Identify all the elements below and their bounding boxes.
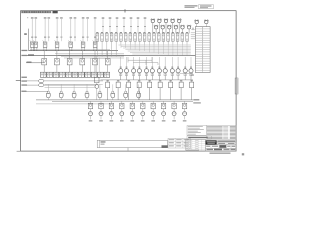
wire cell B18 bottom [177, 41, 179, 44]
wire from buffer E1 [44, 80, 103, 82]
coil CR10 [176, 69, 180, 73]
routing wire mesh v12 [172, 45, 174, 56]
driver D8 [161, 103, 165, 109]
wire gate G2 down [60, 98, 62, 100]
wire lamp DS2 stem [158, 23, 160, 34]
transistor Q8 [163, 109, 165, 111]
net label right y74 [191, 75, 195, 76]
contact pair P6 [72, 72, 78, 77]
routing wire mesh h8 [135, 55, 191, 57]
wire lamp DS10 stem [182, 29, 184, 33]
relay cell B2 [101, 31, 103, 34]
lamp box L6 [81, 42, 85, 47]
wire gate G3 up [73, 84, 75, 91]
relay R2-3 [67, 59, 72, 65]
wire cell B19 bottom [181, 41, 183, 44]
wire register M2 bottom [117, 88, 119, 100]
routing wire mesh v7 [148, 45, 150, 53]
wire driver D8 top [163, 101, 165, 103]
net label y77 [21, 77, 27, 78]
border tick left center [16, 80, 21, 82]
sheet number box top-right [199, 5, 214, 9]
lamp DS3 [164, 19, 167, 22]
register cell M1 [106, 82, 110, 88]
contact pair P7 [79, 72, 85, 77]
wire coil CR11 top [184, 57, 186, 69]
gate G3 [73, 91, 75, 93]
net label y100 right [193, 99, 199, 100]
routing step wire 4 [145, 60, 147, 65]
title strip text top-left [21, 11, 51, 13]
relay R2-1 [42, 59, 47, 65]
wire cell B2 bottom [101, 41, 103, 56]
wire relay R2-4 bottom [81, 65, 83, 72]
drawing number row [206, 145, 237, 148]
wire driver D4 top [121, 101, 123, 103]
wire coil CR6 bottom [151, 73, 153, 80]
wire register M4 bottom [138, 88, 140, 100]
wire register M1 bottom [107, 88, 109, 100]
relay R2-4 [80, 59, 85, 65]
coil CR5 [144, 69, 148, 73]
routing wire mesh h5 [128, 50, 191, 52]
coil CR4 [137, 69, 141, 73]
wire lamp L3 legs [43, 47, 45, 50]
wire gate G8 down [138, 98, 140, 100]
routing wire mesh v11 [167, 45, 169, 56]
lamp box L1 [30, 42, 34, 47]
mark below border right [242, 153, 244, 155]
wire coil CR4 top [138, 57, 140, 69]
wire register M1 top [107, 80, 109, 82]
wire vertical x99 [98, 58, 100, 73]
wire cell B11 bottom [144, 41, 146, 44]
wire register M9 top [191, 80, 193, 82]
wire cell B7 bottom [125, 41, 127, 44]
terminal strip table TB1 [195, 27, 210, 73]
sheet label text top-right [185, 5, 198, 6]
transistor Q3 label [110, 120, 114, 121]
net label left 1 [24, 33, 27, 35]
wire relay R2-3 top [69, 51, 71, 59]
wire below cable box [127, 148, 129, 151]
wire y79.9 long [101, 79, 194, 81]
relay cell B4 [110, 31, 112, 34]
wire coil CR9 top [171, 57, 173, 69]
register cell M5 [148, 82, 152, 88]
wire driver D10 top [184, 101, 186, 103]
transistor Q1 label [89, 120, 93, 121]
wire lamp DS8 stem [168, 29, 170, 33]
lamp DS11 [187, 26, 190, 29]
wire lamp DS1 stem [152, 23, 154, 34]
border tick top center [124, 9, 126, 12]
relay cell B17 [172, 31, 174, 34]
wire lamp DS9 stem [175, 29, 177, 33]
coil CR3 [132, 69, 136, 73]
wire gate G1 up [47, 84, 49, 91]
input stub [87, 19, 89, 41]
wire coil CR10 bottom [177, 73, 179, 80]
title text [217, 141, 235, 142]
transistor Q8 label [162, 120, 166, 121]
lamp box L7 [93, 42, 97, 47]
input stub mid 7 [144, 19, 146, 33]
lamp DS9 [174, 26, 177, 29]
relay cell B15 [162, 31, 164, 34]
relay cell B10 [139, 31, 141, 34]
wire coil CR1 top [120, 57, 122, 69]
register cell M8 [179, 82, 183, 88]
cable schedule box [97, 140, 167, 147]
routing wire mesh h2 [121, 46, 191, 48]
wire coil CR2 top [126, 57, 128, 69]
wire gate G1 down [47, 98, 49, 100]
routing wire mesh h4 [125, 49, 190, 51]
wire lamp L1 legs [30, 47, 32, 50]
wire lamp DS3 stem [165, 23, 167, 34]
routing wire mesh h6 [130, 52, 191, 54]
bottom row fields [206, 148, 237, 151]
wire vertical x96 [96, 56, 98, 77]
relay R2-5 [93, 59, 98, 65]
transistor Q7 label [151, 120, 155, 121]
wire coil CR8 top [164, 57, 166, 69]
field cell dark right of cable box [162, 145, 168, 148]
wire driver D1 top [90, 101, 92, 103]
routing step wire 2 [133, 62, 158, 64]
transistor Q7 [152, 109, 154, 111]
lamp DS10 [181, 26, 184, 29]
bus bundle wire 2 [58, 54, 124, 56]
wire register M8 bottom [180, 88, 182, 100]
lamp box L4 [55, 42, 59, 47]
coil CR12 [189, 69, 193, 73]
gate G1 [47, 91, 49, 93]
routing wire mesh h7 [132, 53, 191, 55]
coil CR8 [163, 69, 167, 73]
wire coil CR1 bottom [120, 73, 122, 80]
wire lamp L2 top [35, 19, 37, 42]
wire cell B5 bottom [115, 41, 117, 56]
drawing border frame [21, 11, 237, 151]
routing wire mesh v15 [186, 45, 188, 56]
transistor Q6 [142, 109, 144, 111]
coil CR6 [150, 69, 154, 73]
bus wire y104 [36, 103, 110, 105]
relay cell B20 [186, 31, 188, 34]
bus wire y50 [29, 50, 118, 52]
wire lamp L6 top [82, 19, 84, 42]
wire step y58 [91, 57, 111, 59]
contact pair P11 [104, 72, 110, 77]
net label y84 [21, 84, 27, 85]
register cell M6 [158, 82, 162, 88]
wire register M7 top [170, 80, 172, 82]
transistor Q9 [173, 109, 175, 111]
wire coil CR7 bottom [158, 73, 160, 80]
input stub mid 6 [137, 19, 139, 33]
transistor Q2 label [99, 120, 103, 121]
wire lamp DS11 stem [188, 29, 190, 33]
wire gate G3 down [73, 98, 75, 100]
transistor Q9 label [172, 120, 176, 121]
relay cell B7 [125, 31, 127, 34]
company logo block [206, 140, 217, 144]
wire cell B6 bottom [120, 41, 122, 44]
coil CR10 base [177, 74, 179, 76]
wire relay R2-2 top [56, 51, 58, 59]
coil CR2 [124, 69, 128, 73]
wire register M3 bottom [128, 88, 130, 100]
transistor Q5 label [131, 120, 135, 121]
transistor Q5 [131, 109, 133, 111]
wire register M6 top [159, 80, 161, 82]
relay cell B11 [143, 31, 145, 34]
wire coil CR12 top [190, 57, 192, 69]
driver D1 [88, 103, 92, 109]
relay cell B3 [106, 31, 108, 34]
input stub mid 2 [109, 19, 111, 33]
input stub [74, 19, 76, 41]
transistor Q10 [184, 109, 186, 111]
wire register M6 bottom [159, 88, 161, 100]
lamp DS4 [171, 19, 174, 22]
wire gate G8 up [138, 84, 140, 91]
buffer E1 [39, 79, 44, 82]
routing step wire 1 [128, 59, 152, 61]
wire relay R2-5 top [94, 51, 96, 59]
wire relay R2-6 top [107, 51, 109, 59]
transistor Q1 [90, 109, 92, 111]
lamp DS6 [154, 26, 157, 29]
gate G7 [125, 91, 127, 93]
wire gate G4 up [86, 84, 88, 91]
wire coil CR10 top [177, 57, 179, 69]
bus wire y55 [26, 55, 195, 57]
coil CR2 base [125, 74, 127, 76]
wire lamp DS6 stem [155, 29, 157, 33]
routing step wire 5 [151, 57, 153, 63]
input stub mid 3 [116, 19, 118, 33]
lamp box L5 [69, 42, 73, 47]
terminal ladder TB0 [192, 28, 195, 30]
wire cell B12 bottom [148, 41, 150, 44]
net label y62 [27, 62, 32, 63]
coil CR3 base [132, 74, 134, 76]
driver D7 [151, 103, 155, 109]
wire gate G2 up [60, 84, 62, 91]
contact pair P8 [85, 72, 91, 77]
relay R2-2 [55, 59, 60, 65]
wire lamp L5 legs [69, 47, 71, 50]
wire register M3 top [128, 80, 130, 82]
lamp DS1 [151, 19, 154, 22]
coil CR9 [170, 69, 174, 73]
wire lamp L5 top [70, 19, 72, 42]
wire cell B13 bottom [153, 41, 155, 44]
net label bus y50 [21, 50, 27, 51]
wire y84 mid [45, 83, 103, 85]
driver D3 [109, 103, 113, 109]
coil CR7 base [158, 74, 160, 76]
wire cell B20 bottom [186, 41, 188, 44]
lamp DS5 [178, 19, 181, 22]
relay cell B19 [181, 31, 183, 34]
wire coil CR4 bottom [138, 73, 140, 80]
wire lamp L7 top [94, 19, 96, 42]
relay cell B6 [120, 31, 122, 34]
wire driver D7 top [152, 101, 154, 103]
net label y91 [21, 91, 26, 92]
title strip end block [53, 11, 58, 14]
wire gate G4 down [86, 98, 88, 100]
wire cell B17 bottom [172, 41, 174, 44]
contact pair P2 [47, 72, 53, 77]
coil CR6 base [151, 74, 153, 76]
note text below border [210, 152, 231, 154]
title block notes box [187, 126, 206, 136]
routing step wire 6 [157, 63, 159, 65]
wire cell B4 bottom [111, 41, 113, 56]
relay cell B1 [96, 31, 98, 34]
wire relay R2-3 bottom [69, 65, 71, 72]
wire coil CR6 top [151, 57, 153, 69]
wire coil CR2 bottom [126, 73, 128, 80]
contact pair P1 [41, 72, 47, 77]
input stub [48, 19, 50, 41]
lamp DS11 [195, 20, 198, 23]
wire register M8 top [180, 80, 182, 82]
junction boxes bottom [168, 138, 190, 148]
transistor Q4 [121, 109, 123, 111]
wire cell B1 bottom [96, 41, 98, 56]
wire gate G7 up [125, 84, 127, 91]
bus bundle wire 4 [64, 57, 124, 59]
register cell M2 [116, 82, 120, 88]
transistor Q10 label [183, 120, 187, 121]
wire lamp DS11 stem [196, 24, 198, 27]
wire relay R2-4 top [81, 51, 83, 59]
routing wire mesh v9 [158, 45, 160, 54]
gate G8 [137, 91, 139, 93]
routing wire mesh h3 [123, 47, 191, 49]
wire driver D5 top [131, 101, 133, 103]
input stub [60, 19, 62, 41]
wire relay R2-2 bottom [56, 65, 58, 72]
lamp box L3 [43, 42, 47, 47]
gate G5 [99, 91, 101, 93]
coil CR4 base [138, 74, 140, 76]
border corner tick bottom-left [17, 150, 21, 152]
left bus vertical wire [28, 29, 30, 51]
wire cell B8 bottom [129, 41, 131, 44]
wire aux relay X1 [96, 74, 98, 77]
routing step wire 3 [127, 57, 129, 63]
input stub mid 1 [102, 19, 104, 33]
routing wire mesh v1 [120, 45, 122, 48]
right margin vertical label [235, 78, 238, 94]
wire lamp L2 legs [34, 47, 36, 50]
coil CR8 base [164, 74, 166, 76]
contact pair P9 [91, 72, 97, 77]
wire gate G5 down [99, 98, 101, 100]
net label y80 [21, 80, 27, 81]
wire lamp DS7 stem [162, 29, 164, 33]
wire y73 to label [180, 73, 193, 75]
driver D10 [182, 103, 186, 109]
wire register M5 bottom [149, 88, 151, 100]
wire coil CR5 bottom [146, 73, 148, 80]
register cell M7 [169, 82, 173, 88]
coil CR11 base [184, 74, 186, 76]
driver D4 [120, 103, 124, 109]
gate G4 [86, 91, 88, 93]
wire y62 left [26, 62, 45, 64]
coil CR11 [183, 69, 187, 73]
lamp DS8 [168, 26, 171, 29]
wire from buffer E2 [44, 84, 96, 86]
bus bundle wire 1 [55, 53, 124, 55]
driver D6 [141, 103, 145, 109]
driver D2 [99, 103, 103, 109]
wire gate G6 up [112, 84, 114, 91]
input stub mid 4 [123, 19, 125, 33]
lamp box L2 [34, 42, 38, 47]
coil CR7 [157, 69, 161, 73]
wire register M7 bottom [170, 88, 172, 100]
wire lamp L7 legs [93, 47, 95, 50]
lamp DS2 [158, 19, 161, 22]
net label bus y55 b [28, 54, 34, 55]
wire relay R2-6 bottom [107, 65, 109, 72]
wire register M9 bottom [191, 88, 193, 100]
wire coil CR3 bottom [133, 73, 135, 80]
register cell M3 [127, 82, 131, 88]
bus bundle wire 3 [61, 56, 124, 58]
register cell M4 [137, 82, 141, 88]
routing wire mesh v2 [125, 45, 127, 48]
gate G6 [112, 91, 114, 93]
contact pair P4 [60, 72, 66, 77]
input stub mid 5 [130, 19, 132, 33]
routing wire mesh v8 [153, 45, 155, 53]
wire y91 [26, 91, 48, 93]
routing wire mesh v14 [181, 45, 183, 56]
routing wire mesh v10 [162, 45, 164, 54]
relay cell B18 [176, 31, 178, 34]
wire coil CR11 bottom [184, 73, 186, 80]
wire driver D9 top [173, 101, 175, 103]
wire driver D2 top [100, 101, 102, 103]
wire vertical x90 [90, 58, 92, 72]
wire lamp L4 top [56, 19, 58, 42]
wire register M2 top [117, 80, 119, 82]
wire lamp L4 legs [55, 47, 57, 50]
wire to buffer E1 [26, 80, 39, 82]
bus wire y49 [30, 48, 110, 50]
wire to buffer E2 [26, 84, 39, 86]
wire y87 mid [45, 87, 97, 89]
transistor Q2 [100, 109, 102, 111]
wire lamp DS12 stem [205, 24, 207, 27]
wire lamp L3 top [44, 19, 46, 42]
wire coil CR9 bottom [171, 73, 173, 80]
wire coil CR3 top [133, 57, 135, 69]
lamp DS7 [161, 26, 164, 29]
relay R2-6 [105, 59, 110, 65]
routing wire mesh h1 [119, 44, 191, 46]
